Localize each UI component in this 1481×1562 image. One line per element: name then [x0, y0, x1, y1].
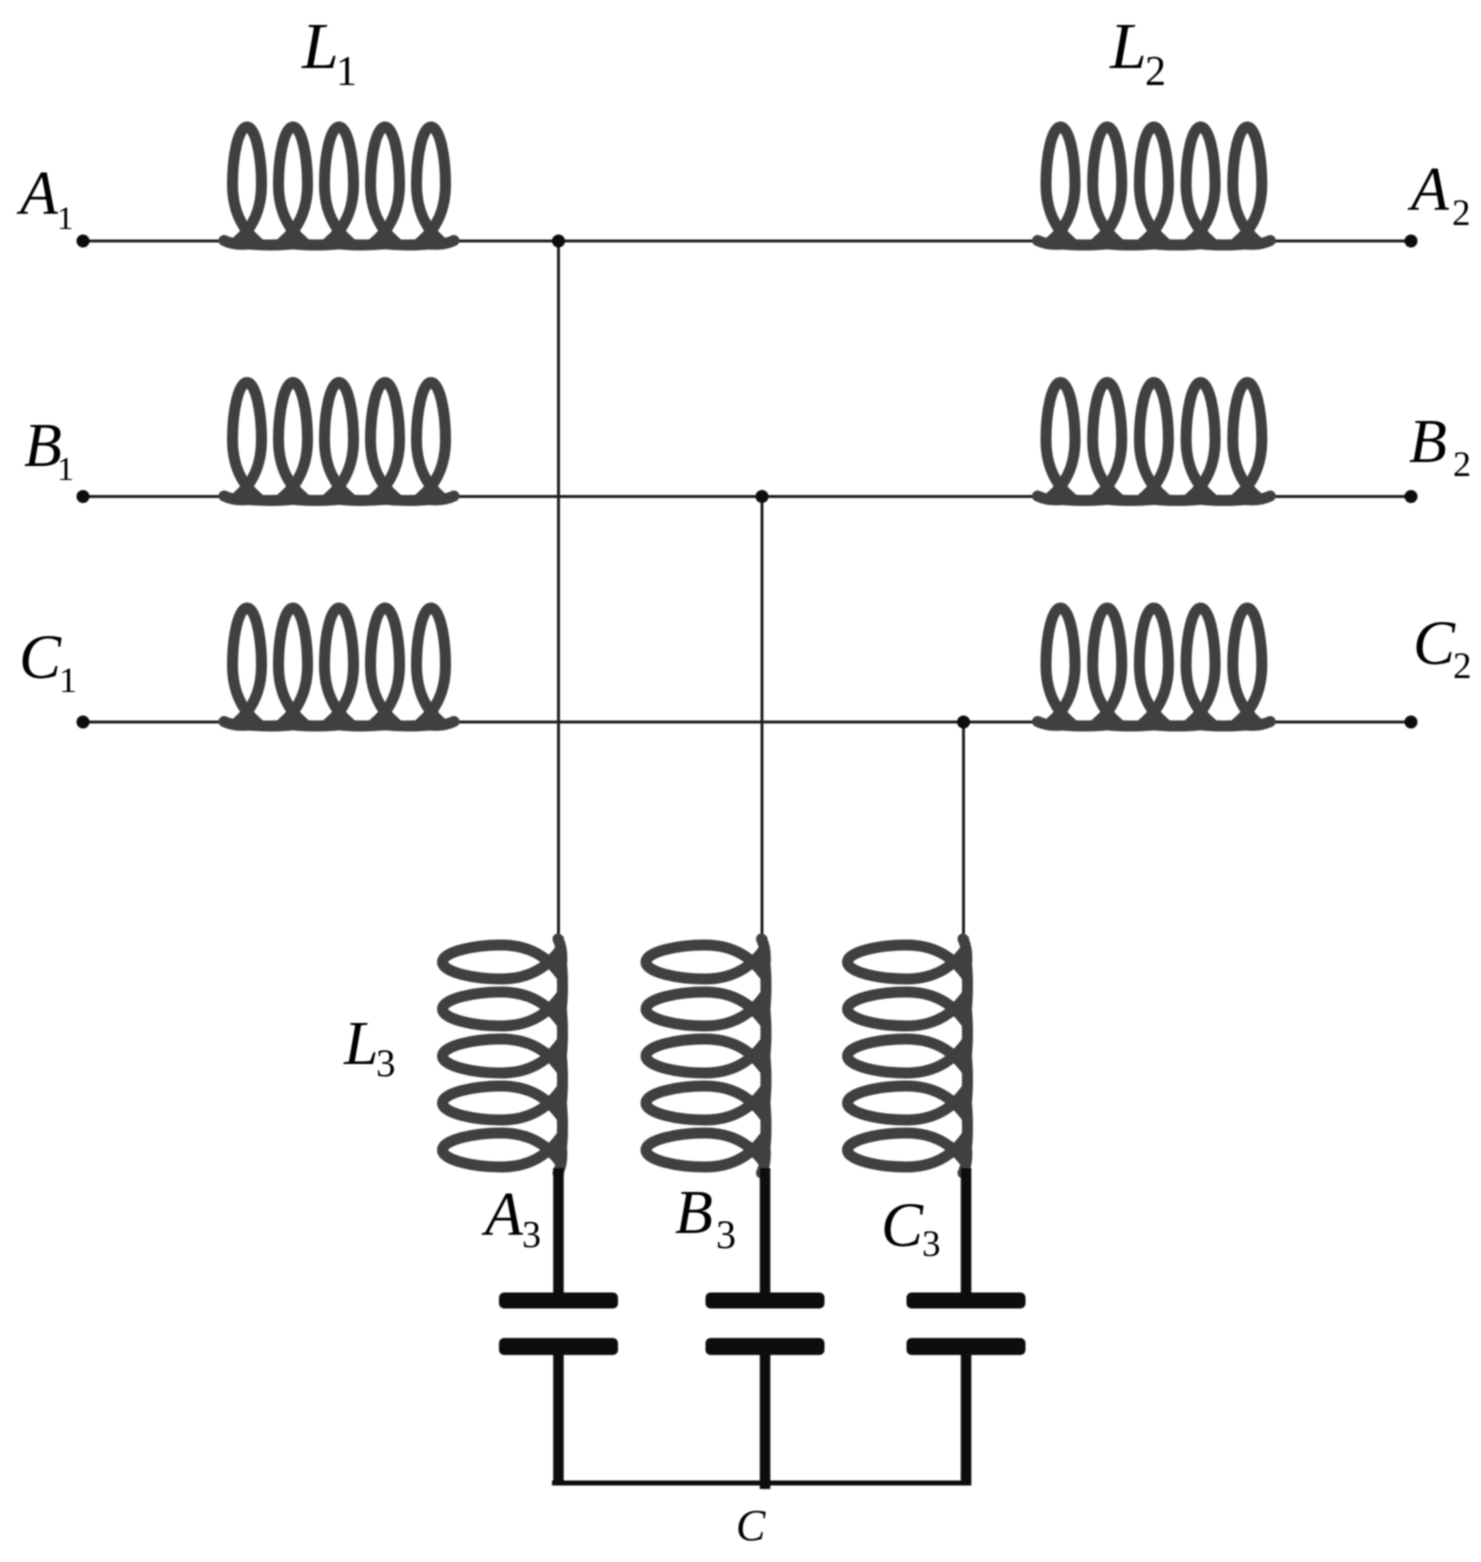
svg-text:3: 3 — [376, 1042, 396, 1085]
svg-text:A: A — [16, 160, 59, 228]
svg-text:C: C — [1413, 608, 1456, 678]
svg-text:A: A — [481, 1181, 524, 1249]
svg-text:1: 1 — [59, 660, 77, 700]
svg-text:L: L — [343, 1010, 378, 1078]
svg-text:3: 3 — [716, 1212, 736, 1257]
svg-text:C: C — [19, 622, 62, 692]
svg-text:1: 1 — [336, 49, 357, 95]
svg-text:3: 3 — [522, 1214, 541, 1256]
svg-text:L: L — [301, 10, 339, 83]
svg-text:1: 1 — [57, 201, 74, 237]
svg-text:2: 2 — [1453, 444, 1471, 484]
svg-text:C: C — [881, 1190, 924, 1260]
svg-text:C: C — [736, 1501, 766, 1550]
svg-text:2: 2 — [1452, 193, 1471, 234]
svg-text:B: B — [675, 1179, 713, 1247]
svg-text:A: A — [1407, 156, 1450, 224]
svg-text:1: 1 — [57, 451, 74, 488]
svg-text:L: L — [1109, 10, 1147, 83]
svg-text:2: 2 — [1453, 646, 1472, 687]
svg-text:2: 2 — [1145, 49, 1166, 95]
svg-text:B: B — [1409, 408, 1447, 476]
svg-text:3: 3 — [922, 1224, 941, 1265]
